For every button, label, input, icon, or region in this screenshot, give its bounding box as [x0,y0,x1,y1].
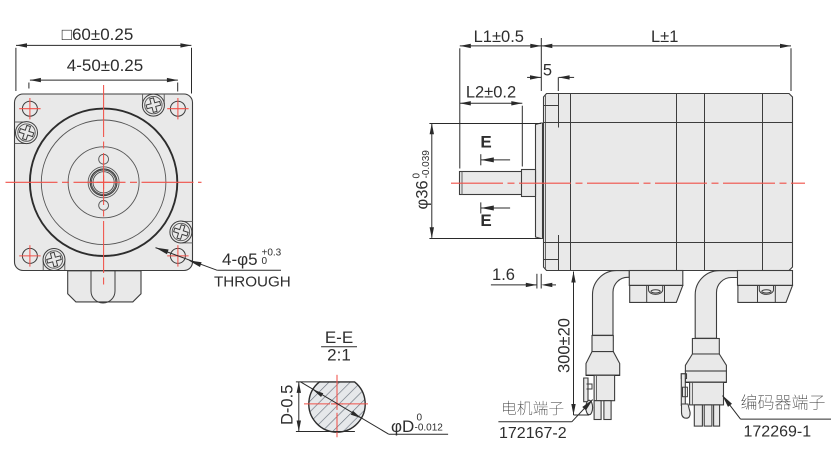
shaft section circle with flat (D-cut) hatched [309,382,365,432]
label 4-phi5 +0.3/0 THROUGH with leader [155,245,291,290]
body seam vertical full 1 [570,94,572,271]
phillips screw bottom-right [170,221,193,243]
red crosshair section [304,375,370,437]
svg-text:-0.012: -0.012 [415,423,444,434]
front face chamfer line [545,96,547,269]
dimension 300 +-20 [556,272,590,416]
svg-text:L±1: L±1 [651,28,678,46]
small rotor hole bottom [99,201,109,211]
shaft circle bold [90,169,117,196]
shaft [460,172,536,195]
connector block 2 on body [738,271,793,303]
svg-text:THROUGH: THROUGH [214,274,291,291]
body long horizontal top [544,122,793,124]
shaft tip chamfer line [461,172,463,195]
shaft inner circle [93,172,114,193]
flange square [15,94,193,271]
label encoder terminal 172269-1 [720,393,831,440]
body seam vertical full 4 [762,94,764,271]
svg-text:□60±0.25: □60±0.25 [62,25,134,44]
dimension L1 +-0.5 [460,28,542,169]
latch clip 2 [681,374,686,379]
svg-text:L1±0.5: L1±0.5 [474,28,524,46]
body seam vertical full 3 [704,94,706,271]
dimension phiD 0/-0.012 with diagonal leader [300,382,448,436]
inner circle r62 [41,120,166,245]
small rotor hole top [99,154,109,164]
svg-text:2:1: 2:1 [327,346,351,365]
svg-text:E: E [480,133,491,152]
motor bell bold circle [30,109,177,256]
svg-text:L2±0.2: L2±0.2 [466,84,516,102]
phillips screw top-right [142,94,164,116]
cable elbow 1 [593,271,630,341]
mid circle r35.5 [68,147,139,218]
svg-text:172167-2: 172167-2 [499,425,567,442]
pilot boss plate phi36 [536,123,543,239]
red center cross front view [97,181,111,183]
shaft circle [91,170,115,194]
motor body [544,94,793,271]
svg-text:D-0.5: D-0.5 [279,385,297,425]
shoulder line top [544,105,559,107]
body cap line front (5mm) [558,94,560,271]
svg-text:φ36: φ36 [414,180,432,209]
svg-text:5: 5 [543,62,552,80]
svg-text:4-φ5: 4-φ5 [222,250,258,269]
cable elbow 2 [695,271,737,340]
phillips screw top-left [15,122,38,144]
phillips screw bottom-left [43,249,65,271]
svg-text:0: 0 [262,256,268,267]
cable 2 connector [681,339,726,427]
dimension 4-50 +-0.25 [29,56,178,92]
section title E-E 2:1 [321,328,357,365]
body long horizontal bottom [544,242,793,244]
corner mounting holes 4-phi5 with red crosses [19,98,188,267]
shaft collar [522,170,536,197]
svg-text:172269-1: 172269-1 [744,424,812,441]
cable 1 connector [584,336,620,420]
dimension L +-1 [541,28,791,91]
svg-text:E: E [480,211,491,230]
latch clip [584,378,588,402]
boss circle r15.5 [88,167,119,198]
dimension square 60 +-0.25 [16,25,192,94]
section mark E top [480,133,510,166]
front connector boss below flange [68,271,141,303]
dimension L2 +-0.2 [460,84,523,167]
svg-text:300±20: 300±20 [556,318,574,373]
label motor terminal 172167-2 [498,397,594,442]
svg-text:E-E: E-E [325,328,353,347]
svg-text:-0.039: -0.039 [421,150,432,179]
dimension 1.6 [491,266,556,289]
prongs [594,401,601,420]
shoulder line bottom [544,259,559,261]
dimension D-0.5 [279,382,355,432]
dimension phi36 0/-0.039 [412,123,542,238]
connector block 1 on body [629,271,683,303]
red horizontal centerline front view [6,181,202,183]
prongs 2 [694,405,702,426]
red vertical centerline front view [103,85,105,286]
section mark E bottom [480,202,510,230]
red centerline side view [451,182,805,184]
dimension 5 [527,62,574,92]
svg-text:φD: φD [391,417,414,436]
body seam vertical full 2 [676,94,678,271]
svg-text:4-50±0.25: 4-50±0.25 [67,56,143,75]
svg-text:1.6: 1.6 [492,266,515,284]
